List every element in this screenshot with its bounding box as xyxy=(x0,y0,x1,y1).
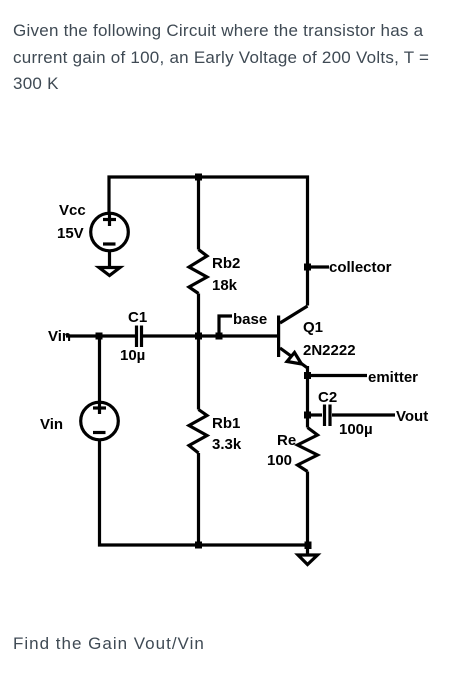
svg-text:C2: C2 xyxy=(318,389,337,406)
svg-text:Vcc: Vcc xyxy=(59,202,86,219)
svg-text:100: 100 xyxy=(267,452,292,469)
svg-text:Q1: Q1 xyxy=(303,319,323,336)
svg-text:100µ: 100µ xyxy=(339,421,373,438)
svg-text:18k: 18k xyxy=(212,277,238,294)
svg-text:Re: Re xyxy=(277,432,296,449)
svg-text:15V: 15V xyxy=(57,225,84,242)
svg-text:10µ: 10µ xyxy=(120,347,145,364)
svg-text:C1: C1 xyxy=(128,309,147,326)
svg-text:Rb1: Rb1 xyxy=(212,415,240,432)
svg-text:Vin: Vin xyxy=(40,416,63,433)
svg-text:2N2222: 2N2222 xyxy=(303,342,356,359)
svg-text:Vout: Vout xyxy=(396,408,428,425)
svg-text:3.3k: 3.3k xyxy=(212,436,242,453)
svg-text:emitter: emitter xyxy=(368,369,418,386)
svg-text:collector: collector xyxy=(329,259,392,276)
svg-text:Vin: Vin xyxy=(48,328,71,345)
svg-text:base: base xyxy=(233,311,267,328)
svg-text:Rb2: Rb2 xyxy=(212,255,240,272)
